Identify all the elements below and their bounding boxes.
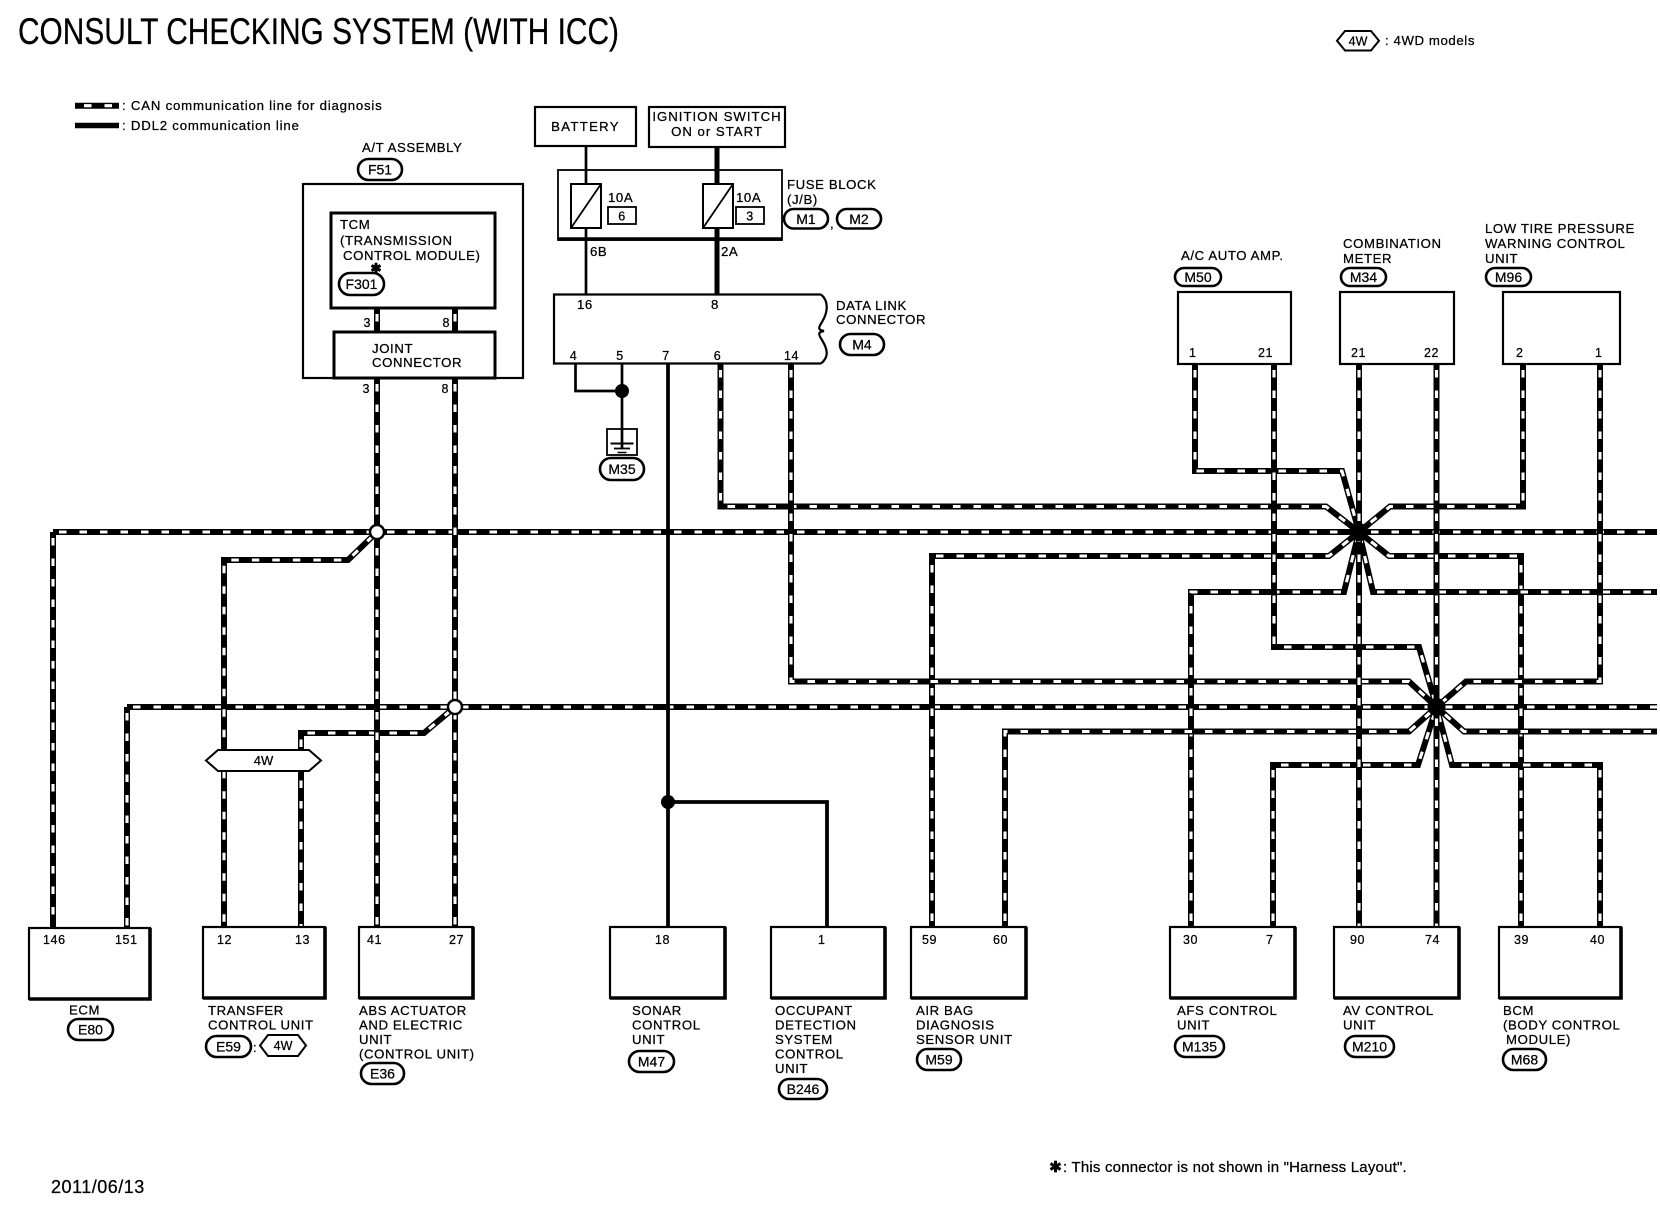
star junction 1 center (1350, 523, 1368, 541)
4W badge on transfer branch wire (206, 750, 321, 771)
svg-text:AIR BAG: AIR BAG (916, 1003, 974, 1018)
svg-text:M4: M4 (852, 337, 872, 353)
wire DLC pin5 to ground M35 (621, 364, 624, 448)
svg-text:AND ELECTRIC: AND ELECTRIC (359, 1018, 463, 1033)
svg-text:M96: M96 (1495, 269, 1522, 285)
svg-text:LOW TIRE PRESSURE: LOW TIRE PRESSURE (1485, 221, 1635, 236)
wire fuse 10A-6 to DLC pin16 (585, 227, 588, 295)
svg-text:27: 27 (449, 933, 464, 947)
svg-text:8: 8 (441, 382, 449, 396)
svg-text:M59: M59 (925, 1052, 952, 1068)
junction dot DDL2 sonar/occupant (661, 795, 675, 809)
connector M96 oval (1486, 268, 1531, 286)
wire COMBINATION METER pin21 to AV pin90 (through star1) (1356, 364, 1362, 927)
fuse F6 10A symbol (571, 184, 601, 228)
svg-text:UNIT: UNIT (1343, 1018, 1376, 1033)
junction dot DLC4/DLC5 ground tie (615, 384, 629, 398)
svg-text:1: 1 (818, 933, 826, 947)
svg-text:ABS ACTUATOR: ABS ACTUATOR (359, 1003, 467, 1018)
svg-text:: This connector is not shown: : This connector is not shown in "Harnes… (1063, 1159, 1407, 1176)
wire IGNITION SWITCH to fuse 10A-3 (715, 146, 720, 185)
svg-text:OCCUPANT: OCCUPANT (775, 1003, 853, 1018)
svg-text:14: 14 (784, 349, 799, 363)
svg-text:SENSOR UNIT: SENSOR UNIT (916, 1032, 1013, 1047)
svg-text:(TRANSMISSION: (TRANSMISSION (340, 233, 453, 248)
svg-text:74: 74 (1425, 933, 1440, 947)
svg-text:: 4WD models: : 4WD models (1385, 33, 1475, 48)
connector M4 oval (840, 334, 884, 355)
wire CAN main bus 2 (horizontal y=707) (127, 704, 1657, 710)
svg-text:4: 4 (570, 349, 578, 363)
legend DDL2 line sample (75, 123, 119, 129)
svg-text:M2: M2 (849, 211, 869, 227)
svg-text:18: 18 (655, 933, 670, 947)
battery B1 box (535, 107, 636, 146)
joint connector box (334, 332, 495, 378)
wire ECM pin151 drop (124, 707, 130, 927)
svg-text:(J/B): (J/B) (787, 192, 818, 207)
TCM transmission control module box (331, 213, 495, 308)
svg-text:CONTROL MODULE): CONTROL MODULE) (343, 248, 480, 263)
svg-text::: : (253, 1040, 257, 1055)
svg-text:21: 21 (1351, 346, 1366, 360)
svg-text:8: 8 (711, 297, 719, 312)
wire DLC pin6 to star1 (721, 364, 1360, 532)
svg-text:10A: 10A (608, 190, 633, 205)
svg-text:4W: 4W (254, 753, 274, 768)
AV control unit box M210 (1334, 927, 1459, 998)
svg-text:SONAR: SONAR (632, 1003, 682, 1018)
wire ECM pin146 drop (50, 532, 56, 927)
svg-text:1: 1 (1595, 346, 1603, 360)
connector M210 oval (1345, 1036, 1394, 1057)
svg-text:2: 2 (1516, 346, 1524, 360)
svg-text:2011/06/13: 2011/06/13 (51, 1177, 145, 1197)
data link connector M4 box (554, 295, 821, 364)
svg-text:7: 7 (662, 349, 670, 363)
wire joint connector pin8 to ABS pin27 (452, 378, 458, 927)
fuse F3 10A symbol (703, 184, 733, 228)
svg-text:JOINT: JOINT (372, 341, 413, 356)
wire BCM pin39 to star1 (1359, 532, 1521, 927)
svg-text:M68: M68 (1511, 1052, 1538, 1068)
wire A/C pin21 to star2 (1274, 364, 1437, 707)
svg-text:M210: M210 (1352, 1039, 1387, 1055)
svg-text:3: 3 (746, 210, 754, 224)
wire joint connector pin3 to ABS pin41 (374, 378, 380, 927)
connector E80 oval (68, 1019, 113, 1040)
svg-text:SYSTEM: SYSTEM (775, 1032, 833, 1047)
svg-text:M34: M34 (1350, 269, 1377, 285)
svg-text:UNIT: UNIT (1177, 1018, 1210, 1033)
svg-text:E59: E59 (216, 1039, 241, 1055)
wire star2 stub to right edge y=731 (1437, 707, 1658, 732)
svg-text:M35: M35 (608, 461, 635, 477)
connector B246 oval (779, 1079, 827, 1099)
wire DLC pin14 to star2 (791, 364, 1437, 707)
svg-text:59: 59 (922, 933, 937, 947)
BCM body control module box M68 (1499, 927, 1621, 998)
wire TRANSFER pin12 branch (224, 532, 377, 927)
svg-text:CONTROL: CONTROL (632, 1018, 701, 1033)
A/C auto amp box M50 (1178, 292, 1291, 364)
svg-text:B246: B246 (787, 1081, 820, 1097)
air bag diagnosis sensor unit box M59 (911, 927, 1026, 998)
svg-text:UNIT: UNIT (1485, 251, 1518, 266)
A/T assembly outer box F51 (303, 184, 523, 378)
svg-text:F301: F301 (346, 276, 378, 292)
svg-text:13: 13 (295, 933, 310, 947)
svg-text:DETECTION: DETECTION (775, 1018, 857, 1033)
svg-text:UNIT: UNIT (775, 1061, 808, 1076)
svg-text:CONSULT CHECKING SYSTEM (WITH: CONSULT CHECKING SYSTEM (WITH ICC) (18, 10, 619, 52)
svg-text:8: 8 (442, 316, 450, 330)
svg-text:M135: M135 (1182, 1039, 1217, 1055)
svg-text:METER: METER (1343, 251, 1392, 266)
svg-text:MODULE): MODULE) (1506, 1032, 1571, 1047)
connector M68 oval (1503, 1049, 1546, 1070)
fuse F6 number box (608, 207, 636, 224)
svg-text:22: 22 (1424, 346, 1439, 360)
svg-text:6B: 6B (590, 244, 607, 259)
svg-text:3: 3 (363, 316, 371, 330)
svg-text:4W: 4W (274, 1039, 293, 1053)
svg-text:,: , (830, 216, 834, 231)
svg-text:21: 21 (1258, 346, 1273, 360)
wire fuse 10A-3 to DLC pin8 (715, 227, 720, 295)
svg-text:2A: 2A (721, 244, 738, 259)
transfer control unit box E59 (203, 927, 325, 998)
svg-text:39: 39 (1514, 933, 1529, 947)
4W badge next to E59 (260, 1035, 306, 1056)
svg-text:E80: E80 (78, 1022, 103, 1038)
svg-text:WARNING CONTROL: WARNING CONTROL (1485, 236, 1625, 251)
svg-text:CONNECTOR: CONNECTOR (836, 312, 926, 327)
svg-text:1: 1 (1189, 346, 1197, 360)
connector M1 oval (784, 209, 828, 229)
svg-text:90: 90 (1350, 933, 1365, 947)
asterisk above F301 (375, 263, 378, 273)
svg-text:FUSE BLOCK: FUSE BLOCK (787, 177, 877, 192)
connector M34 oval (1341, 268, 1386, 286)
svg-text:151: 151 (115, 933, 138, 947)
svg-text:M47: M47 (638, 1054, 665, 1070)
svg-text:UNIT: UNIT (359, 1032, 392, 1047)
svg-text:10A: 10A (736, 190, 761, 205)
svg-text:: DDL2 communication line: : DDL2 communication line (122, 118, 300, 133)
4W badge (legend top right) (1337, 31, 1379, 51)
svg-text:A/T ASSEMBLY: A/T ASSEMBLY (362, 140, 463, 155)
svg-text:7: 7 (1266, 933, 1274, 947)
connector M59 oval (917, 1049, 961, 1070)
fuse F3 number box (736, 207, 764, 224)
wire LOW TIRE pin1 to star2 (1437, 364, 1601, 707)
sonar control unit box M47 (610, 927, 725, 998)
occupant detection system control unit box B246 (771, 927, 885, 998)
svg-text:BATTERY: BATTERY (551, 119, 620, 134)
ground symbol M35 box (607, 429, 637, 455)
svg-text:30: 30 (1183, 933, 1198, 947)
svg-text:3: 3 (362, 382, 370, 396)
wire AFS pin30 to star1 (1191, 532, 1359, 927)
wire AFS pin7 to star2 (1273, 707, 1437, 927)
wire CAN main bus 1 (horizontal y=532) (53, 529, 1657, 535)
svg-text:6: 6 (618, 210, 626, 224)
asterisk in footnote (1054, 1161, 1057, 1173)
node junction circle on main bus 2 (ABS branch) (448, 700, 462, 714)
node junction circle on main bus 1 (TCM branch) (370, 525, 384, 539)
ABS actuator and electric unit box E36 (359, 927, 473, 998)
wire TCM pin3 to joint connector (374, 308, 380, 332)
svg-text:ON or START: ON or START (671, 124, 763, 139)
svg-text:60: 60 (993, 933, 1008, 947)
svg-text:DIAGNOSIS: DIAGNOSIS (916, 1018, 995, 1033)
wire AIR BAG pin59 to star1 (932, 532, 1359, 927)
connector M135 oval (1175, 1036, 1224, 1057)
svg-text:CONNECTOR: CONNECTOR (372, 355, 462, 370)
combination meter box M34 (1340, 292, 1454, 364)
svg-text:AV CONTROL: AV CONTROL (1343, 1003, 1434, 1018)
svg-text:M50: M50 (1184, 269, 1211, 285)
wire DLC pin4 to ground junction (576, 364, 623, 391)
wire BCM pin40 to star2 (1437, 707, 1601, 927)
legend CAN line sample (75, 103, 119, 109)
connector F301 oval (339, 273, 384, 295)
star junction 2 center (1428, 698, 1446, 716)
connector E36 oval (361, 1063, 404, 1084)
svg-text:AFS CONTROL: AFS CONTROL (1177, 1003, 1277, 1018)
svg-text:CONTROL UNIT: CONTROL UNIT (208, 1018, 314, 1033)
ignition switch box (649, 107, 785, 147)
connector F51 oval (358, 159, 402, 180)
svg-text:IGNITION SWITCH: IGNITION SWITCH (652, 109, 781, 124)
low tire pressure warning control unit box M96 (1503, 292, 1620, 364)
svg-text:41: 41 (367, 933, 382, 947)
connector M35 oval (600, 458, 644, 480)
wire COMBINATION METER pin22 to AV pin74 (through star2) (1434, 364, 1440, 927)
svg-text:UNIT: UNIT (632, 1032, 665, 1047)
svg-text:: CAN communication line for d: : CAN communication line for diagnosis (122, 98, 383, 113)
svg-text:TCM: TCM (340, 217, 370, 232)
svg-text:A/C AUTO AMP.: A/C AUTO AMP. (1181, 248, 1284, 263)
connector E59 oval (206, 1036, 251, 1057)
svg-text:F51: F51 (368, 162, 392, 178)
connector M2 oval (837, 209, 881, 229)
ECM box E80 (29, 928, 150, 999)
svg-text:BCM: BCM (1503, 1003, 1534, 1018)
svg-text:4W: 4W (1349, 34, 1368, 48)
wire BATTERY to fuse 10A-6 (585, 145, 588, 185)
wire TCM pin8 to joint connector (452, 308, 458, 332)
wire DDL2 DLC pin7 to SONAR pin18 (666, 364, 670, 927)
wire star1 stub to right edge y=592 (1359, 532, 1657, 592)
svg-text:12: 12 (217, 933, 232, 947)
svg-text:(CONTROL UNIT): (CONTROL UNIT) (359, 1047, 475, 1062)
svg-text:5: 5 (616, 349, 624, 363)
wire LOW TIRE pin2 to star1 (1359, 364, 1523, 532)
AFS control unit box M135 (1170, 927, 1295, 998)
wire AIR BAG pin60 to star2 (1005, 707, 1437, 927)
svg-text:6: 6 (714, 349, 722, 363)
svg-text:40: 40 (1590, 933, 1605, 947)
wire DDL2 branch to OCCUPANT pin1 (668, 802, 827, 927)
svg-text:(BODY CONTROL: (BODY CONTROL (1503, 1018, 1620, 1033)
svg-text:E36: E36 (370, 1066, 395, 1082)
svg-text:16: 16 (577, 297, 593, 312)
wire TRANSFER pin13 branch (301, 707, 455, 927)
connector M47 oval (629, 1051, 674, 1072)
svg-text:TRANSFER: TRANSFER (208, 1003, 284, 1018)
fuse block J/B box (558, 170, 782, 240)
svg-text:CONTROL: CONTROL (775, 1047, 844, 1062)
svg-text:M1: M1 (796, 211, 816, 227)
connector M50 oval (1175, 268, 1221, 286)
svg-text:146: 146 (43, 933, 66, 947)
svg-text:ECM: ECM (69, 1003, 100, 1018)
wire A/C pin1 to star1 (1195, 364, 1359, 532)
svg-text:DATA LINK: DATA LINK (836, 298, 907, 313)
svg-text:COMBINATION: COMBINATION (1343, 236, 1442, 251)
